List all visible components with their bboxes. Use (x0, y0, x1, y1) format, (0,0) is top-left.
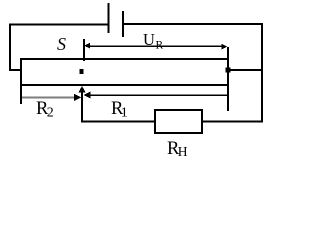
svg-text:H: H (178, 144, 188, 159)
svg-text:S: S (57, 34, 66, 54)
svg-text:2: 2 (47, 106, 54, 121)
svg-text:1: 1 (121, 106, 128, 121)
svg-text:R: R (156, 40, 164, 52)
svg-text:U: U (143, 30, 155, 49)
